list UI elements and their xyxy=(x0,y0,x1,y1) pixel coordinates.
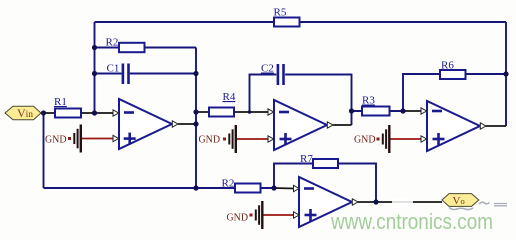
wire R3 row left xyxy=(352,110,404,112)
capacitor C2 xyxy=(261,63,285,86)
watermark gray squiggle under Vo xyxy=(449,208,473,210)
wire U2 output xyxy=(333,124,352,126)
op-amp U3 xyxy=(421,101,486,151)
junction U1 inverting node at R1 xyxy=(92,110,97,115)
svg-text:R4: R4 xyxy=(223,91,236,103)
op-amp U2 xyxy=(268,100,333,150)
port Vin xyxy=(5,106,41,120)
wire C1 row left xyxy=(95,73,122,75)
wire R6 feedback loop xyxy=(403,74,506,111)
junction U1 inverting node at C1 xyxy=(92,71,97,76)
svg-text:GND: GND xyxy=(45,133,67,145)
resistor R5 xyxy=(274,7,300,27)
resistor R7 xyxy=(300,153,338,168)
wire GND2 to U2 non-inverting input xyxy=(236,138,268,140)
port Vo xyxy=(442,194,479,207)
junction U4 inverting node at R7 xyxy=(271,185,276,190)
svg-text:R2: R2 xyxy=(106,37,119,49)
wire C1 row right xyxy=(130,73,196,75)
svg-text:R3: R3 xyxy=(362,95,375,107)
wire GND1 to U1 non-inverting input xyxy=(81,138,114,140)
wire left vertical feedback node xyxy=(94,22,96,113)
svg-text:GND: GND xyxy=(199,134,221,146)
junction Vin node xyxy=(41,110,46,115)
junction U1 inverting node at R2 xyxy=(92,45,97,50)
svg-text:R6: R6 xyxy=(441,60,454,72)
junction U1 output node at bottom row xyxy=(193,185,198,190)
junction U2 output node at R3 xyxy=(349,108,354,113)
junction U1 output node at R4 xyxy=(193,109,198,114)
resistor R6 xyxy=(440,60,466,80)
junction U2 inverting node at C2 xyxy=(248,110,252,114)
resistor R2 (bottom) xyxy=(222,178,261,193)
resistor R3 xyxy=(362,95,390,116)
wire R2 feedback row xyxy=(95,47,197,49)
junction U4 output node at R7 xyxy=(373,199,378,204)
white watermark smudge over output wire xyxy=(392,198,413,207)
op-amp U1 xyxy=(113,99,178,149)
ground GND1 xyxy=(45,125,82,153)
ground GND3 xyxy=(354,125,391,153)
wire Vin branch vertical xyxy=(43,113,45,188)
wire right vertical from top to U3 output xyxy=(505,22,507,126)
wire R3 row right xyxy=(403,110,421,112)
resistor R2 (top feedback) xyxy=(106,37,145,53)
svg-text:R1: R1 xyxy=(54,96,67,108)
wire C2 feedback loop xyxy=(250,75,352,126)
wire Vin to U1 inverting input xyxy=(41,112,114,114)
svg-text:R5: R5 xyxy=(274,7,287,19)
ground GND2 xyxy=(199,125,238,153)
svg-text:GND: GND xyxy=(227,211,249,223)
wire top feedback R5 row xyxy=(95,21,507,23)
svg-text:R2: R2 xyxy=(222,178,235,190)
junction U3 inverting node at R6 xyxy=(400,108,405,113)
wire R7 feedback loop xyxy=(274,164,376,203)
svg-text:GND: GND xyxy=(354,134,376,146)
op-amp U4 xyxy=(294,177,358,227)
junction U3 output node at R6 xyxy=(503,71,508,76)
wire R4 row xyxy=(196,111,268,113)
watermark gray block xyxy=(494,204,507,206)
svg-text:C1: C1 xyxy=(107,63,120,75)
wire GND4 to U4 non-inverting input xyxy=(263,214,294,216)
svg-text:Vo: Vo xyxy=(453,195,465,207)
svg-text:C2: C2 xyxy=(261,63,274,75)
wire U3 output xyxy=(486,125,507,127)
wire U4 output to Vo xyxy=(358,201,443,203)
wire bottom row to R2 xyxy=(44,187,275,189)
watermark gray tilde xyxy=(479,202,490,204)
svg-text:R7: R7 xyxy=(300,153,313,165)
wire R2 to U4 inverting input xyxy=(274,187,294,190)
junction U1 output node at output xyxy=(193,121,198,126)
wire U1 output node vertical xyxy=(195,48,197,189)
capacitor C1 xyxy=(107,63,130,85)
ground GND4 xyxy=(227,201,264,229)
resistor R4 xyxy=(209,91,236,117)
wire GND3 to U3 non-inverting input xyxy=(390,138,422,140)
junction U1 output node at C1 xyxy=(193,71,198,76)
resistor R1 xyxy=(54,96,81,118)
svg-text:www.cntronics.com: www.cntronics.com xyxy=(330,209,493,234)
wire U1 output xyxy=(178,123,196,125)
